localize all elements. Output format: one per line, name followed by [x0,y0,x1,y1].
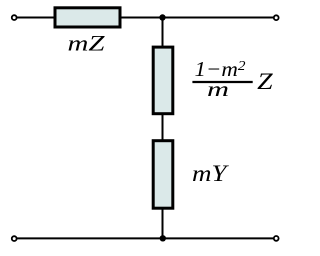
svg-text:Z: Z [257,69,273,94]
svg-text:m: m [207,77,229,101]
svg-text:mZ: mZ [68,31,106,56]
svg-text:mY: mY [192,161,229,186]
